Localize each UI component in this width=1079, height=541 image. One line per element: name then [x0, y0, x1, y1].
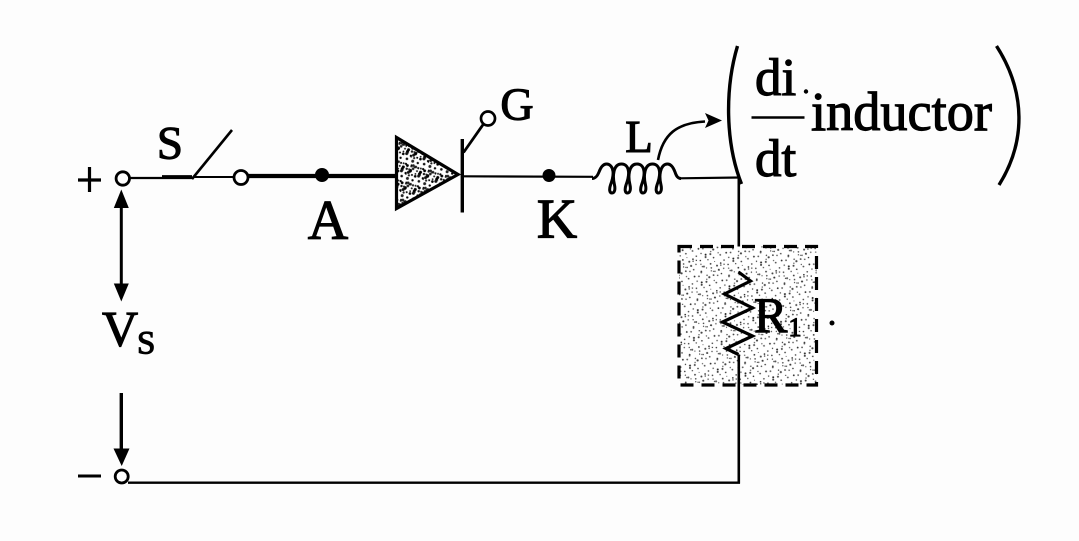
node A junction dot: [315, 168, 329, 182]
svg-text:S: S: [157, 118, 183, 170]
annotation left parenthesis: [729, 46, 742, 184]
svg-text:A: A: [308, 190, 349, 252]
svg-text:dt: dt: [755, 130, 797, 188]
svg-text:K: K: [537, 189, 577, 251]
right branch wire lower: [737, 355, 740, 484]
Vs lower arrow: [114, 393, 130, 466]
svg-text:S: S: [137, 326, 155, 362]
switch right terminal: [234, 171, 248, 185]
plus terminal label +: [78, 167, 101, 192]
svg-text:inductor: inductor: [811, 81, 992, 142]
switch S blade: [192, 130, 232, 179]
svg-text:V: V: [102, 301, 138, 357]
stray period: [830, 321, 835, 326]
node K junction dot: [543, 169, 556, 182]
minus terminal label: [78, 475, 101, 478]
fraction bar: [752, 116, 805, 119]
wire (bold) to anode: [249, 174, 397, 178]
annotation curved arrow: [658, 122, 705, 161]
svg-text:L: L: [625, 112, 653, 162]
stray dot: [804, 89, 808, 93]
negative terminal: [115, 470, 128, 483]
Vs upper arrow (double headed): [114, 190, 129, 302]
svg-text:G: G: [500, 79, 533, 130]
thyristor cathode bar: [461, 139, 464, 213]
gate terminal: [481, 112, 495, 126]
svg-text:R: R: [754, 287, 788, 343]
right branch wire upper: [737, 177, 740, 274]
positive terminal: [116, 172, 129, 185]
wire cathode to K: [464, 175, 593, 178]
gate lead: [464, 124, 484, 153]
svg-text:di: di: [755, 49, 796, 107]
inductor L coil: [592, 164, 681, 193]
thyristor SCR triangle: [397, 138, 459, 209]
bottom return wire: [128, 482, 740, 484]
wire inductor to right corner: [679, 176, 740, 179]
resistor R1 zigzag: [723, 272, 753, 355]
svg-text:1: 1: [789, 313, 802, 342]
wire: [130, 177, 193, 179]
snubber dashed box: [679, 247, 817, 386]
annotation right parenthesis: [997, 46, 1019, 185]
wire: [193, 176, 234, 178]
